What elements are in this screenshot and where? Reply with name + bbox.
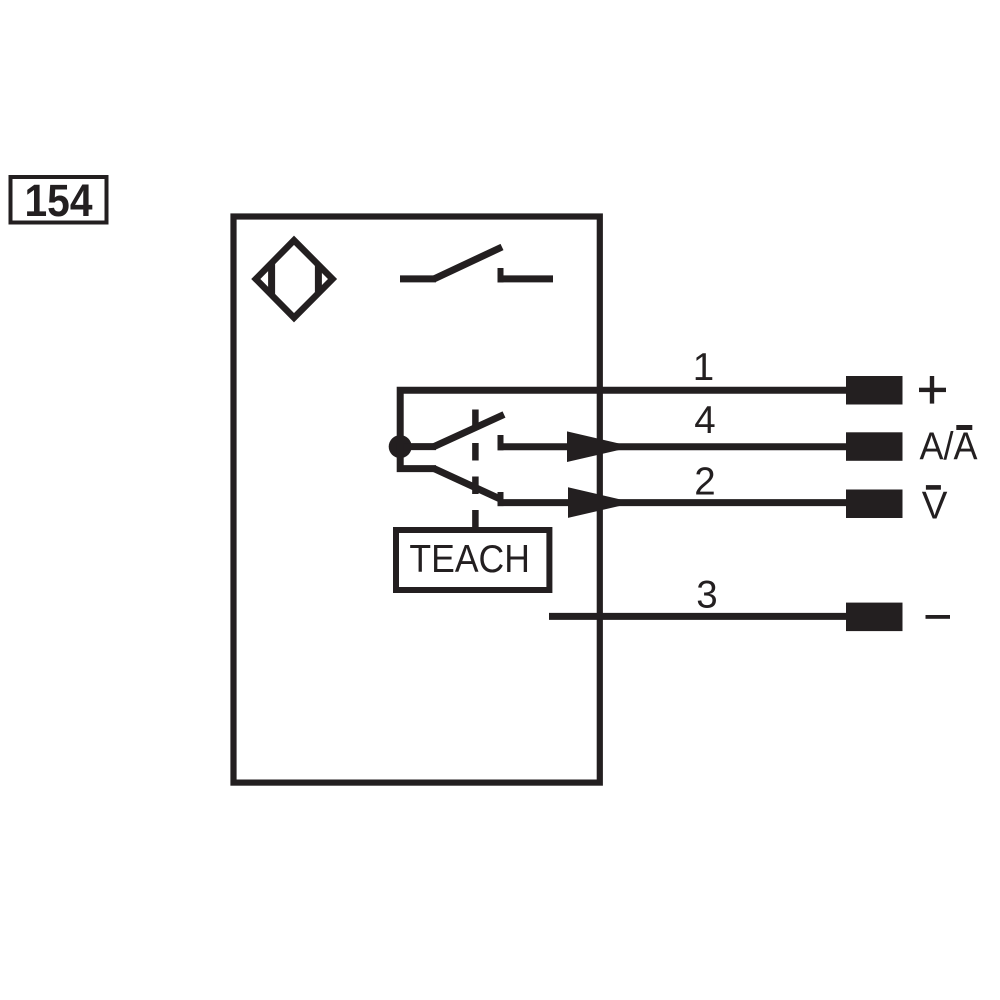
- label plus horizontal bar: [919, 388, 946, 392]
- switch S1 right contact stub: [498, 268, 504, 282]
- svg-text:V: V: [922, 484, 948, 527]
- wire 4: [498, 443, 847, 450]
- terminal 2: [846, 490, 903, 519]
- changeover switch lower blade: [434, 469, 500, 499]
- terminal 4: [846, 432, 903, 461]
- contact stub pin 4: [498, 435, 504, 450]
- sensor body outline: [234, 217, 600, 783]
- svg-text:2: 2: [694, 461, 715, 504]
- mechanical link dashed line: [472, 410, 479, 528]
- svg-text:A/A: A/A: [920, 425, 978, 468]
- switch S1 right lead: [498, 275, 554, 282]
- terminal 1: [846, 376, 903, 405]
- svg-text:154: 154: [25, 175, 94, 226]
- diamond left chord: [268, 263, 275, 296]
- wire 2: [498, 499, 847, 506]
- svg-text:TEACH: TEACH: [409, 538, 530, 581]
- overbar on V: [926, 485, 941, 490]
- label minus: [926, 615, 951, 619]
- svg-text:1: 1: [693, 346, 714, 389]
- changeover switch upper blade: [434, 415, 504, 447]
- figure number box: [11, 177, 107, 223]
- overbar on second A: [956, 425, 972, 430]
- output driver arrow on wire 4: [567, 431, 633, 462]
- switch S1 left lead: [400, 275, 436, 282]
- changeover lower branch wire: [400, 443, 436, 469]
- label plus vertical bar: [930, 376, 934, 404]
- diamond right chord: [315, 265, 322, 294]
- output driver arrow on wire 2: [568, 487, 634, 518]
- proximity sensor symbol diamond: [256, 240, 333, 317]
- contact stub pin 2: [498, 492, 504, 506]
- svg-text:4: 4: [694, 399, 715, 442]
- TEACH box: [396, 530, 549, 590]
- changeover switch common lead: [400, 443, 436, 450]
- svg-text:3: 3: [696, 574, 717, 617]
- node junction dot: [389, 435, 412, 458]
- wire 3: [549, 613, 846, 620]
- terminal 3: [846, 603, 903, 632]
- wire node to terminal 1: [400, 390, 846, 446]
- switch S1 blade: [434, 247, 502, 279]
